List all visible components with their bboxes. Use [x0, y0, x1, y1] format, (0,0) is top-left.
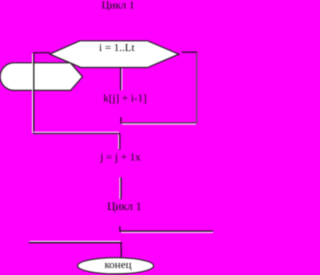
wire: horizontal into hexagon left vertex — [33, 52, 50, 54]
wire: vertical into end ellipse — [120, 243, 122, 258]
svg-text:Цикл 1: Цикл 1 — [102, 0, 135, 12]
terminator ellipse (конец) — [78, 258, 154, 274]
terminator-like loop shape (stadium with pointed right end) — [0, 63, 82, 91]
wire: stub below hexagon — [120, 68, 122, 90]
wire: long horizontal from left y=242.6 — [29, 242, 122, 244]
svg-text:j = j + 1x: j = j + 1x — [99, 152, 141, 164]
wire: left long horizontal y=133.5 — [33, 133, 120, 135]
svg-text:Цикл 1: Цикл 1 — [107, 201, 142, 213]
wire: vertical through stadium, x=33.5 (white echo) — [32, 54, 34, 134]
wire: vertical stub below label (echo) — [119, 178, 121, 200]
wire: vertical down to j=j+1 (echo) — [118, 135, 120, 150]
wire: vertical down to j=j+1 — [119, 134, 121, 150]
svg-text:i = 1..Lt: i = 1..Lt — [99, 42, 135, 54]
wire: stub below hexagon (white echo) — [121, 69, 123, 91]
hexagon U1 (loop header) — [50, 41, 179, 68]
wire: long horizontal right echo — [121, 231, 213, 233]
wire: loopback vertical x=196.7 — [196, 52, 198, 123]
svg-text:k[j] + i-1]: k[j] + i-1] — [103, 92, 146, 104]
wire: long horizontal from left y=242.6 echo — [30, 240, 121, 242]
wire: small stub below label — [119, 227, 121, 232]
wire: up-stub above right loopback — [120, 117, 122, 123]
wire: loopback horizontal echo — [122, 123, 196, 125]
wire: vertical through stadium, x=33.8 — [33, 53, 35, 134]
wire: long horizontal to right edge y=231.1 — [120, 230, 213, 232]
wire: loopback top horizontal from hexagon right vertex — [182, 51, 197, 53]
wire: left long horizontal y=133.5 echo — [34, 131, 120, 133]
wire: vertical stub below label — [120, 177, 122, 199]
wire: loopback horizontal y=122.9 — [121, 122, 197, 124]
svg-text:конец: конец — [105, 259, 132, 271]
